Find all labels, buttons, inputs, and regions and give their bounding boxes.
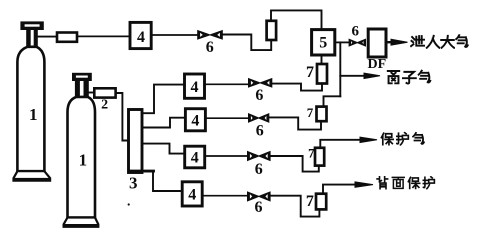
wire 4A to valve A [205, 83, 249, 85]
svg-text:4: 4 [191, 150, 199, 167]
wire regulator 2 to manifold [116, 93, 129, 141]
filter 7a [317, 64, 327, 84]
control box 5 [312, 30, 335, 55]
wire 4B to valve B [205, 117, 248, 119]
cylinder 1 body [17, 47, 44, 171]
flowmeter 4A [185, 74, 205, 98]
valve 6B [248, 113, 269, 123]
wire cylinder2 stem to regulator 2 [88, 92, 95, 94]
wire 4C to valve C [205, 155, 248, 157]
filter 7d [316, 194, 326, 210]
svg-text:4: 4 [191, 79, 199, 96]
vent arrow [386, 39, 408, 45]
flowmeter box 4 (top row) [130, 22, 151, 48]
wire cylinder1 to inline box [37, 36, 58, 38]
wire inline box to flowmeter 4 [77, 35, 130, 37]
svg-text:6: 6 [206, 39, 214, 56]
flashback arrestor DF box [368, 29, 386, 57]
valve 6D [247, 191, 271, 201]
wire manifold to 4A [142, 85, 185, 114]
text 背面保护 [377, 177, 434, 189]
valve 6 (top right) [349, 39, 366, 47]
filter 7b [317, 107, 327, 122]
text 保护气 [381, 133, 424, 145]
svg-text:1: 1 [29, 105, 38, 124]
flowmeter 4D [182, 182, 202, 206]
svg-text:7: 7 [306, 64, 314, 81]
shielding gas arrow from 7c [320, 137, 377, 148]
stray dot [128, 203, 130, 205]
svg-text:5: 5 [319, 35, 327, 52]
wire box5 bottom to filter 7a [321, 55, 323, 64]
node vertical line from box5 output [339, 42, 341, 96]
cylinder 1 cap bar [20, 21, 43, 30]
inline small box (regulator) [57, 33, 77, 42]
cylinder 2 cap stem [75, 81, 89, 97]
wire manifold bottom to 4D [153, 173, 182, 192]
svg-text:2: 2 [101, 98, 108, 113]
wire valve D zigzag to 7d [271, 196, 320, 217]
svg-text:6: 6 [255, 199, 263, 216]
svg-text:1: 1 [79, 150, 88, 169]
wire filter up and over to box 5 [271, 10, 322, 29]
flowmeter 4B [185, 109, 205, 131]
cylinder 2 base flare [64, 218, 99, 227]
wire valve to filter (top row, zigzag) [223, 35, 272, 51]
manifold bottom stub [130, 170, 154, 173]
svg-text:3: 3 [129, 174, 138, 193]
svg-text:6: 6 [255, 87, 263, 104]
wire valve B zigzag to 7b [269, 117, 321, 129]
svg-text:4: 4 [191, 112, 199, 129]
cylinder 1 base flare [14, 171, 51, 180]
svg-text:6: 6 [255, 161, 263, 178]
ion gas arrow [340, 73, 380, 78]
wire 7a zigzag to valve A [272, 84, 322, 91]
wire valve C zigzag to 7c [271, 156, 319, 172]
svg-text:4: 4 [137, 29, 145, 46]
wire box5 to valve 6 (top right) [335, 41, 349, 43]
wire 4D to valve D [202, 195, 247, 197]
wire 4 to valve 6 (top row) [151, 34, 197, 36]
manifold 3 [129, 110, 143, 173]
svg-text:7: 7 [308, 146, 314, 160]
filter box (top row, unlabeled) [267, 21, 277, 40]
valve 6A [248, 78, 272, 88]
svg-text:7: 7 [307, 105, 314, 120]
cylinder 1 cap stem [26, 30, 38, 47]
regulator box 2 [94, 88, 115, 97]
svg-text:6: 6 [351, 24, 359, 40]
wire net down to filter 7b top [324, 96, 341, 106]
valve 6C [247, 151, 271, 161]
svg-text:DF: DF [367, 57, 386, 72]
back purge arrow from 7d [323, 182, 373, 194]
cylinder 2 body [68, 97, 96, 218]
text 泄入大气 [411, 35, 468, 48]
valve 6 (top row) [197, 30, 223, 40]
svg-text:6: 6 [256, 123, 264, 140]
cylinder 2 cap bar [72, 73, 92, 81]
svg-text:4: 4 [188, 187, 196, 204]
svg-text:7: 7 [306, 193, 314, 210]
wire manifold to 4C [142, 144, 185, 154]
filter 7c [315, 148, 324, 166]
wire manifold to 4B [142, 118, 185, 128]
flowmeter 4C [185, 146, 205, 168]
text 离子气 [388, 71, 430, 84]
